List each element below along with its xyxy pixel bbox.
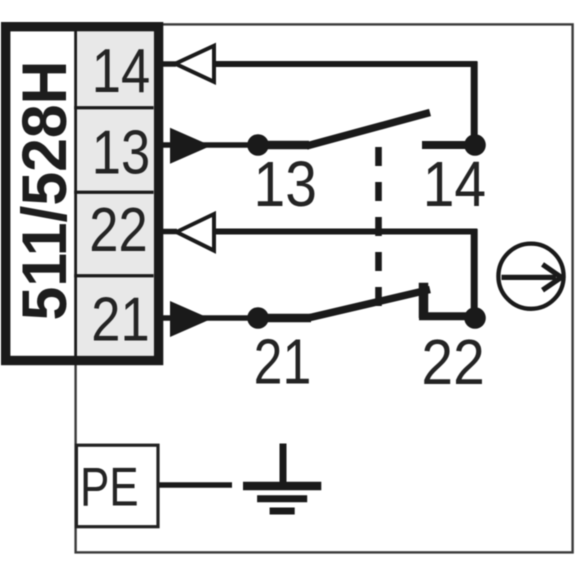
svg-text:22: 22	[89, 196, 147, 265]
svg-text:21: 21	[254, 326, 312, 397]
svg-text:21: 21	[91, 285, 149, 354]
svg-text:22: 22	[421, 326, 484, 398]
svg-text:14: 14	[423, 148, 486, 220]
svg-text:511/528H: 511/528H	[10, 61, 80, 321]
svg-text:14: 14	[92, 37, 150, 106]
svg-text:13: 13	[92, 118, 150, 187]
svg-text:PE: PE	[80, 456, 139, 518]
svg-text:13: 13	[254, 148, 317, 220]
